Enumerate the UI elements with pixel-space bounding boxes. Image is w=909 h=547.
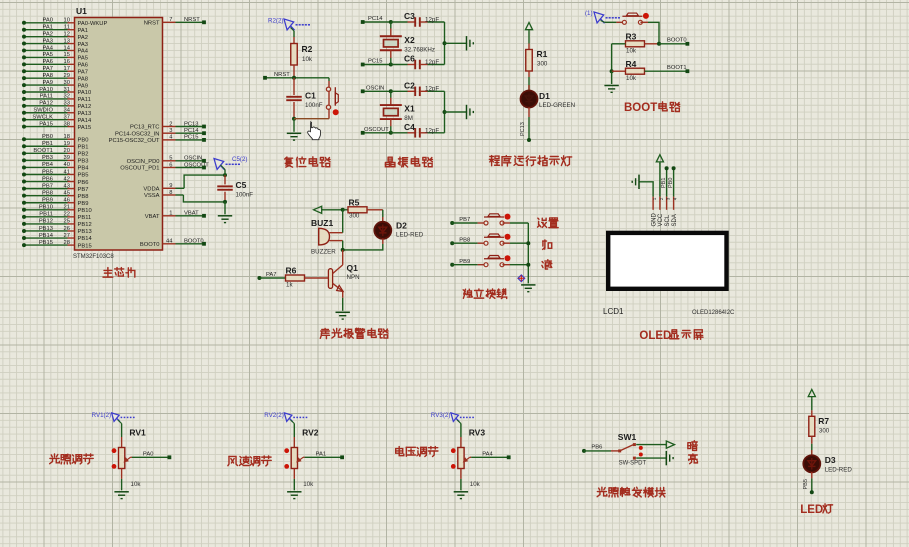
svg-text:PC14: PC14 <box>184 128 199 134</box>
svg-text:RV2: RV2 <box>302 428 319 438</box>
svg-text:PB13: PB13 <box>39 226 53 232</box>
svg-text:C3: C3 <box>404 11 415 21</box>
svg-text:SWCLK: SWCLK <box>32 114 53 120</box>
svg-text:28: 28 <box>64 240 70 246</box>
svg-text:BOOT1: BOOT1 <box>33 148 53 154</box>
svg-text:10k: 10k <box>626 48 637 55</box>
svg-text:VSSA: VSSA <box>144 193 160 199</box>
svg-text:19: 19 <box>64 141 70 147</box>
svg-text:R2: R2 <box>302 44 313 54</box>
svg-text:PB0: PB0 <box>668 178 674 188</box>
svg-text:LED-GREEN: LED-GREEN <box>539 102 575 109</box>
svg-text:STM32F103C8: STM32F103C8 <box>73 254 114 260</box>
svg-text:4: 4 <box>673 197 678 200</box>
svg-text:1: 1 <box>652 197 657 200</box>
svg-text:X2: X2 <box>404 35 415 45</box>
svg-text:C6: C6 <box>404 54 415 64</box>
svg-text:PB8: PB8 <box>78 194 89 200</box>
svg-text:BUZ1: BUZ1 <box>311 218 333 228</box>
svg-text:PA8: PA8 <box>42 73 53 79</box>
svg-text:12pF: 12pF <box>425 127 439 134</box>
svg-text:D2: D2 <box>396 221 407 231</box>
svg-text:PC14: PC14 <box>368 16 383 22</box>
svg-text:7: 7 <box>169 17 172 23</box>
svg-text:2: 2 <box>169 121 172 127</box>
svg-text:10: 10 <box>64 18 70 24</box>
svg-text:BOOT1: BOOT1 <box>667 65 687 71</box>
svg-text:18: 18 <box>64 134 70 140</box>
svg-text:SCL: SCL <box>665 214 671 226</box>
svg-text:PA7: PA7 <box>78 69 89 75</box>
svg-text:3: 3 <box>169 128 172 134</box>
svg-text:12pF: 12pF <box>425 16 439 23</box>
svg-text:42: 42 <box>64 176 70 182</box>
svg-text:PB6: PB6 <box>591 445 602 451</box>
svg-text:43: 43 <box>64 183 70 189</box>
svg-text:VCC: VCC <box>658 213 664 226</box>
svg-text:PB9: PB9 <box>42 198 53 204</box>
svg-text:PA4: PA4 <box>78 49 89 55</box>
svg-text:C1: C1 <box>305 91 316 101</box>
svg-text:41: 41 <box>64 169 70 175</box>
svg-text:12pF: 12pF <box>425 86 439 93</box>
svg-text:PB1: PB1 <box>78 144 89 150</box>
svg-text:PA10: PA10 <box>39 87 53 93</box>
svg-text:(1): (1) <box>585 10 593 17</box>
svg-text:PA3: PA3 <box>78 42 89 48</box>
svg-text:LCD1: LCD1 <box>603 307 624 316</box>
svg-text:PA15: PA15 <box>78 125 92 131</box>
svg-text:14: 14 <box>64 45 71 51</box>
svg-text:GND: GND <box>651 213 657 227</box>
svg-text:1k: 1k <box>286 281 293 288</box>
svg-text:OSCOUT_PD1: OSCOUT_PD1 <box>120 166 159 172</box>
svg-text:RV3(2): RV3(2) <box>431 412 451 419</box>
svg-text:9: 9 <box>169 183 172 189</box>
svg-text:PB14: PB14 <box>39 233 54 239</box>
svg-text:LED-RED: LED-RED <box>396 232 424 239</box>
svg-text:PB15: PB15 <box>39 240 53 246</box>
svg-text:OSCOUT: OSCOUT <box>364 127 389 133</box>
svg-text:SW1: SW1 <box>618 432 637 442</box>
svg-text:32.768KHz: 32.768KHz <box>404 46 435 53</box>
svg-text:PA0: PA0 <box>143 451 154 457</box>
svg-text:PB10: PB10 <box>78 208 92 214</box>
svg-text:31: 31 <box>64 87 70 93</box>
svg-text:PA12: PA12 <box>39 101 53 107</box>
svg-text:39: 39 <box>64 155 70 161</box>
svg-text:PB11: PB11 <box>39 212 53 218</box>
svg-text:LED-RED: LED-RED <box>825 467 853 474</box>
svg-text:PA4: PA4 <box>482 451 493 457</box>
svg-text:BOOT0: BOOT0 <box>667 38 687 44</box>
svg-text:PB8: PB8 <box>42 190 53 196</box>
svg-text:PA13: PA13 <box>78 111 92 117</box>
svg-text:NPN: NPN <box>347 274 360 281</box>
svg-text:33: 33 <box>64 101 70 107</box>
svg-text:BOOT: BOOT <box>624 102 657 114</box>
svg-text:C2: C2 <box>404 80 415 90</box>
svg-text:100nF: 100nF <box>236 192 254 199</box>
svg-text:40: 40 <box>64 162 70 168</box>
svg-text:C5: C5 <box>236 180 247 190</box>
svg-text:PA0-WKUP: PA0-WKUP <box>78 21 108 27</box>
svg-text:Q1: Q1 <box>347 263 359 273</box>
svg-text:PB4: PB4 <box>78 166 90 172</box>
svg-text:PC13: PC13 <box>184 121 199 127</box>
svg-text:PA9: PA9 <box>78 83 89 89</box>
svg-text:17: 17 <box>64 66 70 72</box>
svg-text:PA2: PA2 <box>78 35 89 41</box>
svg-text:PB11: PB11 <box>78 215 92 221</box>
svg-text:PA6: PA6 <box>42 59 53 65</box>
svg-text:PB0: PB0 <box>78 137 89 143</box>
svg-text:10k: 10k <box>303 481 314 488</box>
svg-text:OLED12864I2C: OLED12864I2C <box>692 310 735 316</box>
svg-text:VDDA: VDDA <box>143 187 159 193</box>
svg-text:PA12: PA12 <box>78 104 92 110</box>
svg-text:PA5: PA5 <box>78 56 89 62</box>
svg-text:PB15: PB15 <box>78 243 92 249</box>
svg-text:6: 6 <box>169 162 172 168</box>
svg-text:OSCIN_PD0: OSCIN_PD0 <box>127 159 160 165</box>
svg-text:26: 26 <box>64 226 70 232</box>
svg-text:27: 27 <box>64 233 70 239</box>
svg-text:U1: U1 <box>76 6 87 16</box>
svg-text:30: 30 <box>64 80 70 86</box>
svg-text:R1: R1 <box>537 49 548 59</box>
svg-text:PB5: PB5 <box>803 479 809 489</box>
svg-text:PB0: PB0 <box>42 134 53 140</box>
svg-text:PA9: PA9 <box>42 80 53 86</box>
svg-text:R2(2): R2(2) <box>268 18 283 25</box>
svg-text:NRST: NRST <box>184 17 200 23</box>
svg-text:R7: R7 <box>818 416 829 426</box>
svg-text:10k: 10k <box>302 56 313 63</box>
svg-text:PB12: PB12 <box>78 222 92 228</box>
svg-text:C5(2): C5(2) <box>232 156 247 163</box>
svg-text:X1: X1 <box>404 104 415 114</box>
svg-text:45: 45 <box>64 190 70 196</box>
svg-text:OLED: OLED <box>639 330 671 342</box>
svg-text:PA11: PA11 <box>40 94 53 100</box>
svg-text:NRST: NRST <box>274 72 290 78</box>
svg-text:PB1: PB1 <box>661 178 667 188</box>
svg-text:PC13_RTC: PC13_RTC <box>130 125 160 131</box>
svg-text:SDA: SDA <box>672 214 678 226</box>
svg-text:RV2(2): RV2(2) <box>264 412 284 419</box>
svg-text:BUZZER: BUZZER <box>311 249 336 256</box>
svg-text:44: 44 <box>166 239 173 245</box>
svg-text:PA1: PA1 <box>78 28 89 34</box>
svg-text:2: 2 <box>659 197 664 200</box>
svg-text:OSCIN: OSCIN <box>184 156 202 162</box>
svg-text:PB10: PB10 <box>39 205 53 211</box>
svg-text:PA1: PA1 <box>42 25 53 31</box>
svg-text:8M: 8M <box>404 115 413 122</box>
svg-text:10k: 10k <box>626 75 637 82</box>
svg-text:LED: LED <box>800 504 823 516</box>
svg-text:PB14: PB14 <box>78 236 93 242</box>
svg-text:100nF: 100nF <box>305 102 323 109</box>
svg-text:PA3: PA3 <box>42 38 53 44</box>
svg-text:16: 16 <box>64 59 70 65</box>
svg-text:C4: C4 <box>404 122 415 132</box>
svg-text:PB5: PB5 <box>42 169 53 175</box>
svg-text:PB13: PB13 <box>78 229 92 235</box>
svg-text:25: 25 <box>64 219 70 225</box>
svg-text:PB7: PB7 <box>78 187 89 193</box>
svg-text:R6: R6 <box>286 266 297 276</box>
svg-text:RV3: RV3 <box>469 428 486 438</box>
svg-text:300: 300 <box>349 213 360 220</box>
svg-text:37: 37 <box>64 114 70 120</box>
svg-text:BOOT0: BOOT0 <box>184 239 204 245</box>
svg-text:21: 21 <box>64 205 70 211</box>
svg-text:5: 5 <box>169 156 172 162</box>
svg-text:PC14-OSC32_IN: PC14-OSC32_IN <box>115 131 159 137</box>
svg-text:13: 13 <box>64 38 70 44</box>
svg-text:PA15: PA15 <box>39 121 53 127</box>
svg-text:15: 15 <box>64 52 70 58</box>
svg-text:8: 8 <box>169 190 172 196</box>
svg-text:10k: 10k <box>131 481 142 488</box>
svg-text:PA8: PA8 <box>78 76 89 82</box>
svg-text:PA5: PA5 <box>42 52 53 58</box>
svg-text:D1: D1 <box>539 91 550 101</box>
svg-text:PC15: PC15 <box>368 59 383 65</box>
svg-text:RV1(2): RV1(2) <box>92 412 112 419</box>
svg-text:11: 11 <box>64 25 70 31</box>
svg-text:PC15-OSC32_OUT: PC15-OSC32_OUT <box>109 138 160 144</box>
svg-text:PB4: PB4 <box>42 162 54 168</box>
svg-text:R3: R3 <box>626 32 637 42</box>
svg-text:R5: R5 <box>349 198 360 208</box>
svg-text:PA6: PA6 <box>78 63 89 69</box>
svg-text:32: 32 <box>64 94 70 100</box>
svg-text:300: 300 <box>537 61 548 68</box>
svg-text:3: 3 <box>666 197 671 200</box>
svg-text:PA10: PA10 <box>78 90 92 96</box>
svg-text:46: 46 <box>64 198 70 204</box>
svg-text:38: 38 <box>64 121 70 127</box>
svg-text:PB2: PB2 <box>78 152 89 158</box>
svg-text:SWDIO: SWDIO <box>33 108 53 114</box>
svg-text:PB3: PB3 <box>78 159 89 165</box>
svg-text:PA4: PA4 <box>42 45 53 51</box>
svg-text:PC13: PC13 <box>520 122 526 136</box>
svg-text:PA11: PA11 <box>78 97 91 103</box>
svg-text:PB3: PB3 <box>42 155 53 161</box>
svg-text:PB12: PB12 <box>39 219 53 225</box>
svg-text:VBAT: VBAT <box>145 214 160 220</box>
svg-text:SW-SPDT: SW-SPDT <box>619 461 647 467</box>
svg-text:12pF: 12pF <box>425 59 439 66</box>
svg-text:PB6: PB6 <box>78 180 89 186</box>
svg-text:VBAT: VBAT <box>184 211 199 217</box>
svg-text:29: 29 <box>64 73 70 79</box>
svg-text:PA2: PA2 <box>42 31 53 37</box>
svg-text:PA1: PA1 <box>316 451 327 457</box>
svg-text:10k: 10k <box>470 481 481 488</box>
svg-text:PB6: PB6 <box>42 176 53 182</box>
svg-text:R4: R4 <box>626 59 637 69</box>
svg-text:22: 22 <box>64 212 70 218</box>
svg-text:PA7: PA7 <box>42 66 53 72</box>
svg-text:12: 12 <box>64 31 70 37</box>
svg-text:PA14: PA14 <box>78 118 93 124</box>
svg-text:OSCIN: OSCIN <box>366 85 384 91</box>
svg-text:PB9: PB9 <box>78 201 89 207</box>
svg-text:PA0: PA0 <box>42 18 53 24</box>
svg-text:34: 34 <box>64 108 71 114</box>
svg-text:BOOT0: BOOT0 <box>140 242 160 248</box>
svg-text:D3: D3 <box>825 455 836 465</box>
svg-text:NRST: NRST <box>144 21 160 27</box>
svg-text:300: 300 <box>819 428 830 435</box>
svg-text:20: 20 <box>64 148 70 154</box>
svg-text:PB7: PB7 <box>42 183 53 189</box>
svg-text:PC15: PC15 <box>184 135 199 141</box>
svg-text:PB1: PB1 <box>42 141 53 147</box>
svg-text:RV1: RV1 <box>129 428 146 438</box>
svg-text:PB5: PB5 <box>78 173 89 179</box>
svg-text:1: 1 <box>169 211 172 217</box>
